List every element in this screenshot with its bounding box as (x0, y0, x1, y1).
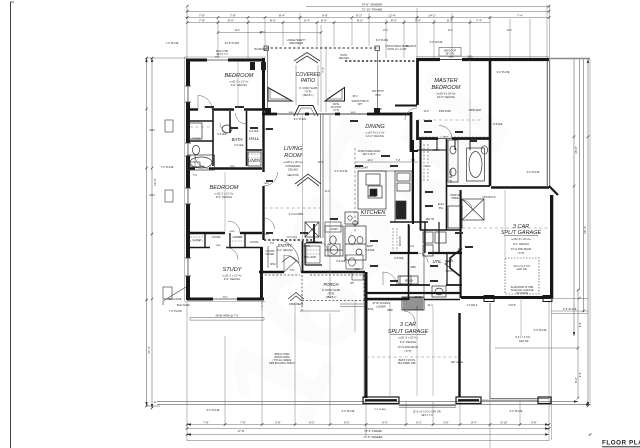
bath corner wall (306, 224, 322, 243)
svg-text:9'-0" PLATE: 9'-0" PLATE (527, 171, 540, 174)
svg-text:2 ROWS: 2 ROWS (191, 139, 201, 141)
svg-text:12'-8: 12'-8 (317, 162, 323, 164)
svg-text:9'-4": 9'-4" (304, 19, 310, 23)
svg-text:B12 PITCH: B12 PITCH (372, 91, 384, 93)
svg-text:SHWR: SHWR (451, 198, 458, 200)
svg-text:BM: BM (378, 109, 382, 111)
svg-text:9'-2": 9'-2" (416, 420, 422, 424)
master bath fixtures (448, 140, 488, 220)
svg-text:(TYP): (TYP) (305, 90, 312, 94)
living north wall with patio windows (262, 113, 412, 116)
svg-text:VLTD: VLTD (375, 95, 381, 97)
svg-text:3050: 3050 (223, 297, 229, 299)
left wing outer west wall (186, 59, 190, 301)
svg-text:BEDROOM: BEDROOM (225, 73, 254, 79)
svg-text:LIVING: LIVING (284, 146, 303, 152)
svg-text:29'-4": 29'-4" (583, 226, 587, 234)
util corridor walls (390, 252, 462, 254)
bedroom1 south wall (187, 108, 265, 111)
svg-text:2668: 2668 (354, 269, 360, 271)
svg-text:SET 4 7'-0: SET 4 7'-0 (421, 414, 433, 417)
fixtures: bath1 extra (163, 113, 247, 299)
left dimension lines (147, 58, 188, 408)
svg-text:9'-8 CEIL: 9'-8 CEIL (336, 261, 346, 263)
svg-text:9'-0" PLATE: 9'-0" PLATE (294, 118, 307, 121)
svg-text:5050 SNKD: 5050 SNKD (439, 111, 451, 113)
bath interior walls (188, 111, 262, 166)
closet shelf dashes left wing (190, 154, 320, 254)
svg-text:SEE NOTE: SEE NOTE (287, 175, 299, 177)
stove/fireplace center (305, 222, 319, 237)
svg-text:3'-8": 3'-8" (443, 420, 449, 424)
svg-text:DRYER: DRYER (445, 261, 453, 263)
svg-text:9'-0" CEILING: 9'-0" CEILING (216, 195, 232, 199)
svg-text:2044: 2044 (149, 129, 155, 132)
svg-text:PANTRY: PANTRY (398, 236, 402, 247)
svg-text:BULLNOSE: BULLNOSE (177, 304, 190, 307)
front wall of entry section (259, 271, 365, 274)
svg-text:9'-0" CEILING: 9'-0" CEILING (231, 83, 247, 87)
svg-text:8'-0": 8'-0" (270, 19, 276, 23)
svg-text:7'-8": 7'-8" (199, 13, 205, 17)
right garage dashed slab rect (505, 258, 539, 294)
porch ridge chevron (288, 293, 304, 302)
svg-text:◂ ±11'-0 x 12'-4 ▸: ◂ ±11'-0 x 12'-4 ▸ (222, 274, 242, 278)
svg-text:2 ROWS: 2 ROWS (249, 242, 259, 244)
hall east / living west wall (262, 110, 264, 240)
kitchen cabinets left column (345, 171, 428, 224)
svg-text:9'-0" PLATE: 9'-0" PLATE (534, 329, 547, 332)
svg-text:8'-0 x 7'-0 O.H.: 8'-0 x 7'-0 O.H. (515, 337, 531, 339)
svg-text:10'-0" CEILING: 10'-0" CEILING (366, 134, 384, 138)
svg-text:11'-2: 11'-2 (448, 30, 454, 32)
svg-text:◂ ±31'-4 x 22'-0 ▸: ◂ ±31'-4 x 22'-0 ▸ (398, 336, 418, 340)
bottom dim labels (203, 420, 537, 439)
svg-text:2 ROWS: 2 ROWS (211, 237, 221, 239)
porch west connector wall (260, 272, 262, 299)
svg-text:9'-8: 9'-8 (578, 322, 582, 327)
svg-text:7'-4": 7'-4" (476, 19, 482, 23)
svg-text:9'-8 CEIL: 9'-8 CEIL (394, 258, 404, 260)
svg-text:16'-8: 16'-8 (423, 111, 429, 113)
porch slab line (340, 304, 364, 307)
svg-text:17'-8": 17'-8" (237, 429, 244, 433)
right garage east wall (550, 195, 553, 298)
svg-text:7'-0" PLATE: 7'-0" PLATE (169, 310, 182, 313)
svg-text:M. BATH: M. BATH (449, 169, 453, 183)
svg-text:3050: 3050 (215, 57, 221, 59)
svg-text:9' CONC SLAB: 9' CONC SLAB (322, 288, 340, 292)
wall opening tiny labels (200, 57, 455, 412)
svg-text:9'-10": 9'-10" (500, 420, 507, 424)
svg-text:9'-8 CEIL: 9'-8 CEIL (365, 250, 375, 252)
svg-text:SCRND PORCH: SCRND PORCH (351, 101, 368, 103)
svg-text:4'-0 WALK: 4'-0 WALK (467, 304, 478, 307)
svg-text:37'-4": 37'-4" (147, 346, 151, 354)
svg-text:2668: 2668 (204, 107, 210, 109)
svg-text:2668: 2668 (230, 166, 236, 168)
svg-text:7'-8": 7'-8" (203, 420, 209, 424)
svg-text:◂ ±15'-0 x 16'-0 ▸: ◂ ±15'-0 x 16'-0 ▸ (436, 92, 456, 96)
svg-text:9'-0" PLATE: 9'-0" PLATE (207, 409, 220, 412)
master north wall (417, 58, 549, 61)
svg-text:9'-8": 9'-8" (531, 420, 537, 424)
svg-text:(38A B.I.): (38A B.I.) (326, 295, 337, 299)
svg-text:AT CLDNG BLND: AT CLDNG BLND (398, 345, 419, 349)
svg-text:(TYP): (TYP) (333, 110, 339, 112)
svg-text:9'-0" CEILING: 9'-0" CEILING (224, 277, 240, 281)
svg-text:9'-0" PLATE: 9'-0" PLATE (563, 308, 577, 311)
svg-text:72'-4" FRAME: 72'-4" FRAME (364, 429, 382, 433)
svg-text:9'-0" PLATE: 9'-0" PLATE (430, 41, 443, 44)
svg-text:2668: 2668 (264, 234, 270, 236)
svg-text:6'-0": 6'-0" (309, 420, 315, 424)
hall to master wall (395, 105, 417, 107)
patio ridge chevron (294, 53, 320, 64)
svg-text:45'-0: 45'-0 (352, 96, 358, 98)
svg-text:9'-0" PLATE: 9'-0" PLATE (497, 71, 510, 74)
svg-text:9'-2": 9'-2" (356, 13, 362, 17)
sheet border line (10, 2, 12, 448)
svg-text:HALL: HALL (249, 136, 260, 141)
svg-text:ISLAND: ISLAND (368, 195, 377, 198)
svg-text:9' CONC SLAB: 9' CONC SLAB (299, 86, 317, 90)
svg-text:8'-4": 8'-4" (321, 19, 327, 23)
bottom slab double line (157, 402, 590, 405)
svg-text:HOSE: HOSE (367, 309, 374, 311)
entry open-beam dashed line (264, 239, 312, 241)
svg-text:2668: 2668 (410, 267, 416, 269)
svg-text:9'-0" PLATE: 9'-0" PLATE (510, 410, 523, 413)
svg-text:WDW SEAT: WDW SEAT (469, 109, 482, 112)
svg-text:PER BUILDING SPECS: PER BUILDING SPECS (269, 362, 295, 365)
svg-text:CLOSET: CLOSET (265, 254, 275, 256)
svg-text:OPEN BEAM: OPEN BEAM (289, 303, 303, 306)
porch corner diagonal (163, 287, 186, 305)
svg-text:8'-0": 8'-0" (344, 420, 350, 424)
svg-text:9'-0 CEIL: 9'-0 CEIL (234, 145, 244, 147)
patio open beam dashed line (266, 47, 379, 49)
svg-text:NOTE 14 x 14 BP: NOTE 14 x 14 BP (387, 48, 406, 51)
svg-text:2044: 2044 (149, 194, 155, 197)
svg-text:OPT: OPT (358, 104, 363, 106)
util room fixtures (423, 206, 462, 256)
bath1 fixtures left wing (188, 123, 262, 170)
svg-text:SEE DET: SEE DET (339, 57, 350, 60)
top dim extension verticals (187, 5, 550, 186)
svg-text:LNDRY: LNDRY (330, 229, 338, 231)
svg-text:9'-0": 9'-0" (382, 420, 388, 424)
bath3 cluster near porch (345, 226, 366, 260)
svg-text:STUDY: STUDY (223, 267, 243, 273)
svg-text:5050: 5050 (467, 57, 473, 59)
svg-text:3050: 3050 (351, 112, 357, 114)
dining east wall (410, 112, 413, 152)
svg-text:74'-6" VENEER: 74'-6" VENEER (362, 2, 384, 6)
svg-text:(38A B.I.): (38A B.I.) (303, 93, 314, 97)
bedroom1 east wall (262, 58, 265, 110)
right dimension lines (551, 59, 588, 406)
svg-text:SPLIT GARAGE: SPLIT GARAGE (501, 230, 542, 236)
center hall bath rework marks (325, 222, 363, 269)
master east wall (489, 60, 492, 186)
svg-text:2668: 2668 (264, 129, 270, 131)
svg-text:BM: BM (266, 109, 270, 111)
extra density entry/hall (268, 230, 424, 300)
svg-text:28'-2 PL: 28'-2 PL (446, 53, 455, 56)
svg-text:8'-0": 8'-0" (228, 19, 234, 23)
svg-text:OPN SHLVS: OPN SHLVS (483, 197, 496, 199)
svg-text:5'-8": 5'-8" (275, 420, 281, 424)
svg-text:LADDER: LADDER (376, 306, 386, 309)
svg-text:9'-0" PLATE: 9'-0" PLATE (376, 39, 389, 42)
svg-text:BATH: BATH (232, 137, 244, 142)
rear open beam dashes right section (345, 60, 417, 62)
svg-text:PORCH: PORCH (323, 282, 339, 287)
attic ladder hatched box (402, 297, 424, 310)
svg-text:BUL BARB. DRL: BUL BARB. DRL (398, 362, 417, 365)
center garage south wall buttresses + door (363, 397, 399, 404)
master closet row subdivisions (417, 139, 470, 150)
svg-text:14'-2": 14'-2" (428, 13, 436, 17)
svg-text:7'-4": 7'-4" (517, 13, 523, 17)
patio posts (265, 108, 271, 115)
kitchen dashed boundary (354, 148, 356, 232)
master west wall (416, 58, 419, 140)
svg-text:BEDROOM: BEDROOM (432, 85, 461, 91)
svg-text:9'-0" CEILING: 9'-0" CEILING (513, 242, 529, 246)
svg-text:REF SP: REF SP (426, 219, 435, 221)
svg-text:(12' DROP): (12' DROP) (516, 292, 528, 295)
svg-text:5'-0 CLG BRK: 5'-0 CLG BRK (289, 214, 304, 216)
svg-text:3050: 3050 (449, 57, 455, 59)
patio hearth trapezoid (294, 106, 318, 117)
svg-text:DINING: DINING (365, 124, 385, 130)
entry chevron (282, 256, 298, 262)
closet row walls (187, 233, 262, 248)
svg-text:BULLNOSE: BULLNOSE (169, 298, 182, 301)
svg-text:OPEN BEAM: OPEN BEAM (289, 42, 303, 45)
svg-text:ROOM: ROOM (284, 153, 302, 159)
svg-text:72'-10" FRAME: 72'-10" FRAME (362, 7, 383, 11)
svg-text:BEDROOM: BEDROOM (210, 185, 239, 191)
svg-text:9'-0 CEIL: 9'-0 CEIL (217, 134, 227, 136)
svg-text:FRZ: FRZ (458, 249, 463, 251)
svg-text:30'-0": 30'-0" (574, 146, 578, 154)
svg-text:3050: 3050 (289, 112, 295, 114)
svg-text:9'-4": 9'-4" (415, 19, 421, 23)
svg-text:12'-0 CLG: 12'-0 CLG (287, 237, 298, 239)
svg-text:24'-0": 24'-0" (153, 178, 157, 186)
svg-text:8'-0": 8'-0" (391, 19, 397, 23)
svg-text:12'-4": 12'-4" (388, 13, 396, 17)
svg-text:REF: REF (399, 211, 404, 213)
svg-text:FLOOR PLAN: FLOOR PLAN (602, 440, 640, 447)
svg-text:STEP-IN: STEP-IN (450, 195, 459, 197)
svg-text:9'-0" PLATE: 9'-0" PLATE (342, 410, 355, 413)
svg-text:W.I.C.: W.I.C. (425, 166, 432, 168)
svg-text:9'-0 CEIL: 9'-0 CEIL (249, 131, 259, 133)
mid-left vertical dim column (321, 25, 326, 112)
front door arc (284, 255, 301, 272)
svg-text:2668: 2668 (230, 231, 236, 233)
watermark (191, 56, 546, 445)
top wall extension to patio line right (549, 58, 590, 60)
svg-text:5'-8: 5'-8 (396, 159, 401, 162)
svg-text:(TYP): (TYP) (328, 292, 335, 296)
right garage west angled bay (450, 250, 460, 276)
more top dim structure (218, 33, 490, 138)
svg-text:BAY GRGE: BAY GRGE (451, 361, 463, 364)
svg-text:◂ ±22'-0 x 22'-0 ▸: ◂ ±22'-0 x 22'-0 ▸ (511, 237, 531, 241)
svg-text:SPLIT GARAGE: SPLIT GARAGE (388, 329, 429, 335)
entry door arc (275, 240, 299, 264)
svg-text:KITCHEN: KITCHEN (361, 210, 387, 216)
svg-text:PATIO: PATIO (301, 78, 315, 84)
svg-text:9'-8: 9'-8 (578, 372, 582, 377)
svg-text:WH: WH (350, 283, 354, 285)
svg-text:CEILING: CEILING (288, 168, 298, 172)
svg-text:BILLWICK: BILLWICK (406, 46, 417, 48)
svg-text:GAR. DR.: GAR. DR. (519, 340, 530, 343)
living ridge chevron (295, 174, 321, 186)
bench and toilet (400, 276, 418, 284)
svg-text:◂ ±11'-0 x 12'-0 ▸: ◂ ±11'-0 x 12'-0 ▸ (214, 192, 234, 196)
svg-text:42'-4: 42'-4 (427, 305, 433, 307)
svg-text:49'-8" PLATE: 49'-8" PLATE (225, 42, 240, 45)
svg-text:(TYP): (TYP) (518, 251, 525, 255)
top dim tick marks (186, 5, 550, 24)
svg-text:10'-0: 10'-0 (367, 159, 373, 162)
right garage west wall (460, 190, 462, 298)
right garage NE diagonal corner (549, 186, 558, 195)
master closet dashes (424, 144, 428, 182)
left margin ticks (145, 108, 589, 408)
svg-text:2668: 2668 (264, 183, 270, 185)
svg-text:9'-8": 9'-8" (322, 13, 328, 17)
bottom dim ticks (186, 423, 592, 436)
bedroom corner posts (250, 62, 255, 70)
patio roof triangles (268, 88, 292, 102)
svg-text:17'-8: 17'-8 (382, 30, 388, 32)
bedroom1 north wall (187, 59, 265, 62)
svg-text:2668: 2668 (237, 107, 243, 109)
svg-text:NOTE: NOTE (333, 104, 340, 106)
interior dashed dim lines (190, 120, 550, 357)
svg-text:14'-8: 14'-8 (234, 30, 240, 32)
svg-text:3080: 3080 (290, 270, 296, 272)
svg-text:◂ ±13'-9 x 11'-0 ▸: ◂ ±13'-9 x 11'-0 ▸ (365, 131, 385, 135)
dense tiny marks imitating dimension texts along interior (205, 106, 477, 282)
entry closet walls (305, 243, 322, 265)
bedroom2 north wall (187, 167, 262, 170)
svg-text:7'-0" PLATE: 7'-0" PLATE (161, 166, 174, 169)
pantry shelves (393, 228, 397, 251)
svg-text:7'-8": 7'-8" (240, 420, 246, 424)
svg-text:WASH: WASH (446, 270, 453, 273)
svg-text:UTIL: UTIL (432, 259, 442, 264)
svg-text:BILLBOARD: BILLBOARD (255, 48, 268, 51)
svg-text:7'-8": 7'-8" (199, 19, 205, 23)
svg-text:PNL: PNL (439, 208, 444, 210)
center garage north walls (366, 292, 460, 294)
svg-text:9'-0" PLATE: 9'-0" PLATE (335, 170, 348, 173)
svg-text:10'-0" CEILING: 10'-0" CEILING (437, 95, 455, 99)
kitchen east wall (420, 138, 422, 230)
svg-text:9'-0" PLATE: 9'-0" PLATE (374, 408, 386, 411)
svg-text:9'-8 CEIL: 9'-8 CEIL (493, 124, 503, 126)
svg-text:SET 4 10'-0": SET 4 10'-0" (363, 154, 376, 156)
svg-text:8'-4": 8'-4" (279, 13, 285, 17)
right garage south wall (461, 296, 551, 299)
svg-text:7'-8": 7'-8" (230, 13, 236, 17)
study window sill line (190, 318, 264, 321)
study south wall (187, 298, 264, 301)
svg-text:2668: 2668 (216, 245, 222, 247)
svg-text:MASTER: MASTER (434, 78, 457, 84)
top dim labels (199, 2, 523, 22)
svg-text:9'-0" CEILING: 9'-0" CEILING (400, 340, 416, 344)
front wall section between porch and garage (366, 298, 408, 300)
bedroom1 door arc (198, 96, 212, 110)
svg-text:9'-0" CEILING: 9'-0" CEILING (277, 248, 293, 252)
svg-text:COV'D: COV'D (508, 305, 515, 307)
bedroom2 south wall (187, 232, 262, 234)
svg-text:BATH: BATH (367, 245, 373, 248)
veneer outline (185, 57, 554, 400)
svg-text:CLOSET: CLOSET (233, 237, 243, 239)
svg-text:8'-0": 8'-0" (357, 19, 363, 23)
svg-text:42X60 WDW @ 7'-0": 42X60 WDW @ 7'-0" (215, 315, 238, 318)
svg-text:AT CLDNG BLND: AT CLDNG BLND (511, 247, 532, 251)
svg-text:LINEN: LINEN (248, 158, 261, 163)
svg-text:CATHEDRAL: CATHEDRAL (285, 164, 301, 168)
svg-text:BIBB: BIBB (387, 310, 393, 312)
center garage west wall (365, 272, 368, 398)
svg-text:◂ ±11'-0 x 13'-0 ▸: ◂ ±11'-0 x 13'-0 ▸ (229, 80, 249, 84)
svg-text:7'-0" PLATE: 7'-0" PLATE (166, 42, 179, 45)
svg-text:8'-4": 8'-4" (471, 420, 477, 424)
bottom dim extension verticals (187, 59, 590, 448)
svg-text:LINEN: LINEN (433, 150, 440, 152)
svg-text:3 CAR: 3 CAR (400, 322, 416, 328)
svg-text:STRUCTURAL/LDGR: STRUCTURAL/LDGR (358, 150, 381, 153)
mbath west wall (446, 139, 448, 230)
svg-text:GAR. DR.: GAR. DR. (517, 268, 528, 271)
svg-text:8'-0": 8'-0" (447, 19, 453, 23)
bottom dimension lines (187, 425, 549, 435)
west wall windows (thin) (185, 86, 191, 276)
svg-text:(TYP): (TYP) (405, 349, 412, 353)
svg-text:LNDG: LNDG (310, 242, 317, 244)
svg-text:2 ROWS: 2 ROWS (265, 251, 275, 253)
kitchen dim tick row (355, 161, 418, 163)
driveway apron right lines (551, 313, 588, 315)
svg-text:4X4 POST: 4X4 POST (331, 107, 343, 109)
patio side edges (267, 50, 269, 108)
rear court outline (489, 303, 491, 399)
door arcs (226, 126, 472, 323)
top dimension lines (185, 7, 549, 23)
svg-text:SHLF: SHLF (270, 264, 276, 266)
svg-text:◂ ±18'-0 x 20'-0 ▸: ◂ ±18'-0 x 20'-0 ▸ (283, 160, 303, 164)
master south wall (417, 137, 491, 140)
svg-text:ENTRY: ENTRY (278, 243, 293, 248)
room sub-labels with arrows (214, 80, 531, 354)
svg-text:7'-4": 7'-4" (321, 67, 325, 73)
svg-text:14'-0: 14'-0 (506, 30, 512, 32)
hall bath cluster center (325, 226, 343, 256)
